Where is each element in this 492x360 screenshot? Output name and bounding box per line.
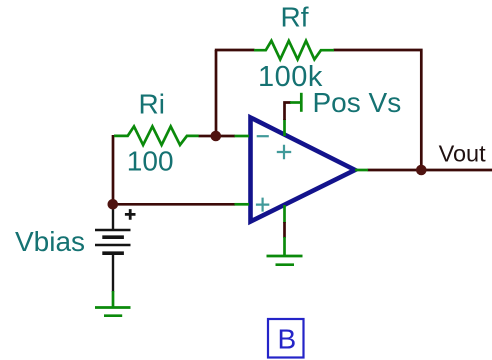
- svg-text:Vout: Vout: [439, 141, 487, 167]
- wire: top rail left segment to Rf: [215, 49, 255, 52]
- svg-text:B: B: [278, 323, 297, 354]
- op-amp U1 triangle: [251, 118, 356, 222]
- op-amp minus input marker: [257, 135, 269, 137]
- svg-text:Pos Vs: Pos Vs: [313, 87, 402, 118]
- wire: left vertical from Ri to Vbias node: [112, 135, 115, 205]
- node junction: Vbias node: [108, 199, 119, 210]
- wire: supply pin up to tap corner: [285, 103, 292, 121]
- wire: Ri right lead to junction (dark): [199, 135, 213, 138]
- node junction: output node: [416, 165, 427, 176]
- wire: tap horizontal green: [290, 101, 301, 104]
- wire: output wire to right edge: [368, 169, 492, 172]
- battery V1 Vbias: top lead: [112, 206, 114, 230]
- wire: inverting-node to op-amp minus input: [216, 135, 235, 138]
- op-amp internal plus marker: [277, 145, 291, 159]
- wire: Vbias node to op-amp plus input: [113, 203, 235, 206]
- battery polarity plus sign: [125, 209, 136, 220]
- wire: ground lead green: [283, 237, 286, 256]
- op-amp plus input marker: [256, 198, 269, 212]
- node Pos Vs tap tick: [300, 93, 303, 112]
- pin: non-inverting input stub: [235, 203, 250, 206]
- pin: output stub: [355, 169, 368, 172]
- wire: battery ground lead green: [112, 291, 115, 307]
- resistor Ri: [114, 126, 199, 145]
- battery bottom lead: [112, 254, 114, 292]
- ground (op-amp): [267, 256, 303, 265]
- wire: junction node to top rail (vertical x=216): [215, 50, 218, 137]
- pin: negative supply pin (green stub below op-amp): [283, 205, 286, 223]
- svg-text:Rf: Rf: [281, 1, 309, 32]
- svg-text:100: 100: [127, 145, 174, 176]
- figure label box B: [268, 319, 304, 358]
- resistor Rf: [254, 41, 334, 60]
- node junction: inverting input node: [211, 131, 222, 142]
- wire: top rail right segment from Rf to right corner, down to output node: [334, 50, 422, 170]
- pin: inverting input stub: [235, 135, 250, 138]
- pin: positive supply pin (green stub at top of op-amp): [283, 119, 286, 136]
- battery plates: [95, 229, 131, 231]
- wire: op-amp ground wire (dark): [283, 222, 286, 238]
- svg-text:Vbias: Vbias: [15, 226, 85, 257]
- svg-text:Ri: Ri: [139, 89, 165, 120]
- ground (battery): [95, 308, 131, 316]
